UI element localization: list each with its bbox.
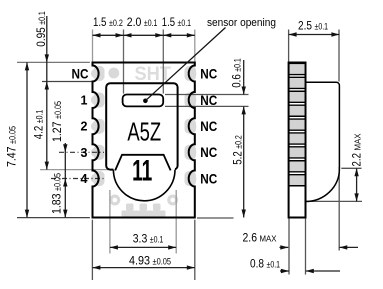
svg-text:NC: NC bbox=[200, 92, 217, 108]
svg-text:±0.1: ±0.1 bbox=[178, 18, 192, 28]
svg-text:NC: NC bbox=[200, 118, 217, 134]
svg-text:5.2: 5.2 bbox=[231, 151, 245, 165]
svg-text:±0.1: ±0.1 bbox=[35, 110, 45, 124]
svg-text:4: 4 bbox=[81, 172, 88, 186]
svg-text:1.83: 1.83 bbox=[50, 193, 64, 214]
svg-text:±0.2: ±0.2 bbox=[109, 18, 123, 28]
svg-text:MAX: MAX bbox=[260, 235, 278, 244]
svg-text:0.95: 0.95 bbox=[34, 27, 48, 47]
svg-text:2: 2 bbox=[81, 120, 88, 134]
svg-text:MAX: MAX bbox=[354, 133, 363, 151]
svg-text:±0.1: ±0.1 bbox=[150, 235, 164, 245]
svg-text:1.5: 1.5 bbox=[93, 15, 107, 29]
svg-text:±0.1: ±0.1 bbox=[37, 11, 47, 25]
svg-text:±0.2: ±0.2 bbox=[234, 135, 244, 149]
svg-text:1.5: 1.5 bbox=[162, 15, 175, 29]
svg-text:2.2: 2.2 bbox=[350, 153, 364, 167]
svg-text:4.2: 4.2 bbox=[32, 125, 46, 139]
svg-text:NC: NC bbox=[200, 65, 217, 81]
svg-text:±0.05: ±0.05 bbox=[153, 257, 172, 267]
svg-text:2.0: 2.0 bbox=[127, 15, 142, 29]
svg-text:NC: NC bbox=[200, 170, 217, 186]
svg-text:0.8: 0.8 bbox=[250, 257, 264, 271]
svg-text:±0.1: ±0.1 bbox=[267, 260, 281, 270]
svg-text:±0.1: ±0.1 bbox=[144, 18, 158, 28]
svg-text:NC: NC bbox=[72, 65, 89, 81]
svg-text:2.5: 2.5 bbox=[298, 19, 312, 33]
svg-text:A5Z: A5Z bbox=[127, 117, 161, 147]
svg-text:7.47: 7.47 bbox=[5, 146, 19, 167]
svg-text:±0.05: ±0.05 bbox=[8, 126, 18, 144]
svg-text:2.6: 2.6 bbox=[243, 231, 258, 245]
svg-text:±0.05: ±0.05 bbox=[53, 173, 63, 191]
svg-text:1.27: 1.27 bbox=[50, 121, 64, 142]
svg-text:4.93: 4.93 bbox=[129, 254, 150, 268]
svg-text:0.6: 0.6 bbox=[230, 74, 244, 88]
svg-text:sensor opening: sensor opening bbox=[207, 17, 276, 29]
svg-text:11: 11 bbox=[132, 155, 152, 188]
svg-text:3.3: 3.3 bbox=[133, 232, 148, 246]
svg-text:±0.05: ±0.05 bbox=[53, 101, 63, 119]
svg-text:1: 1 bbox=[81, 94, 88, 108]
svg-text:NC: NC bbox=[200, 144, 217, 160]
svg-text:±0.1: ±0.1 bbox=[233, 58, 243, 72]
svg-text:±0.1: ±0.1 bbox=[315, 22, 329, 32]
svg-text:3: 3 bbox=[81, 146, 88, 160]
